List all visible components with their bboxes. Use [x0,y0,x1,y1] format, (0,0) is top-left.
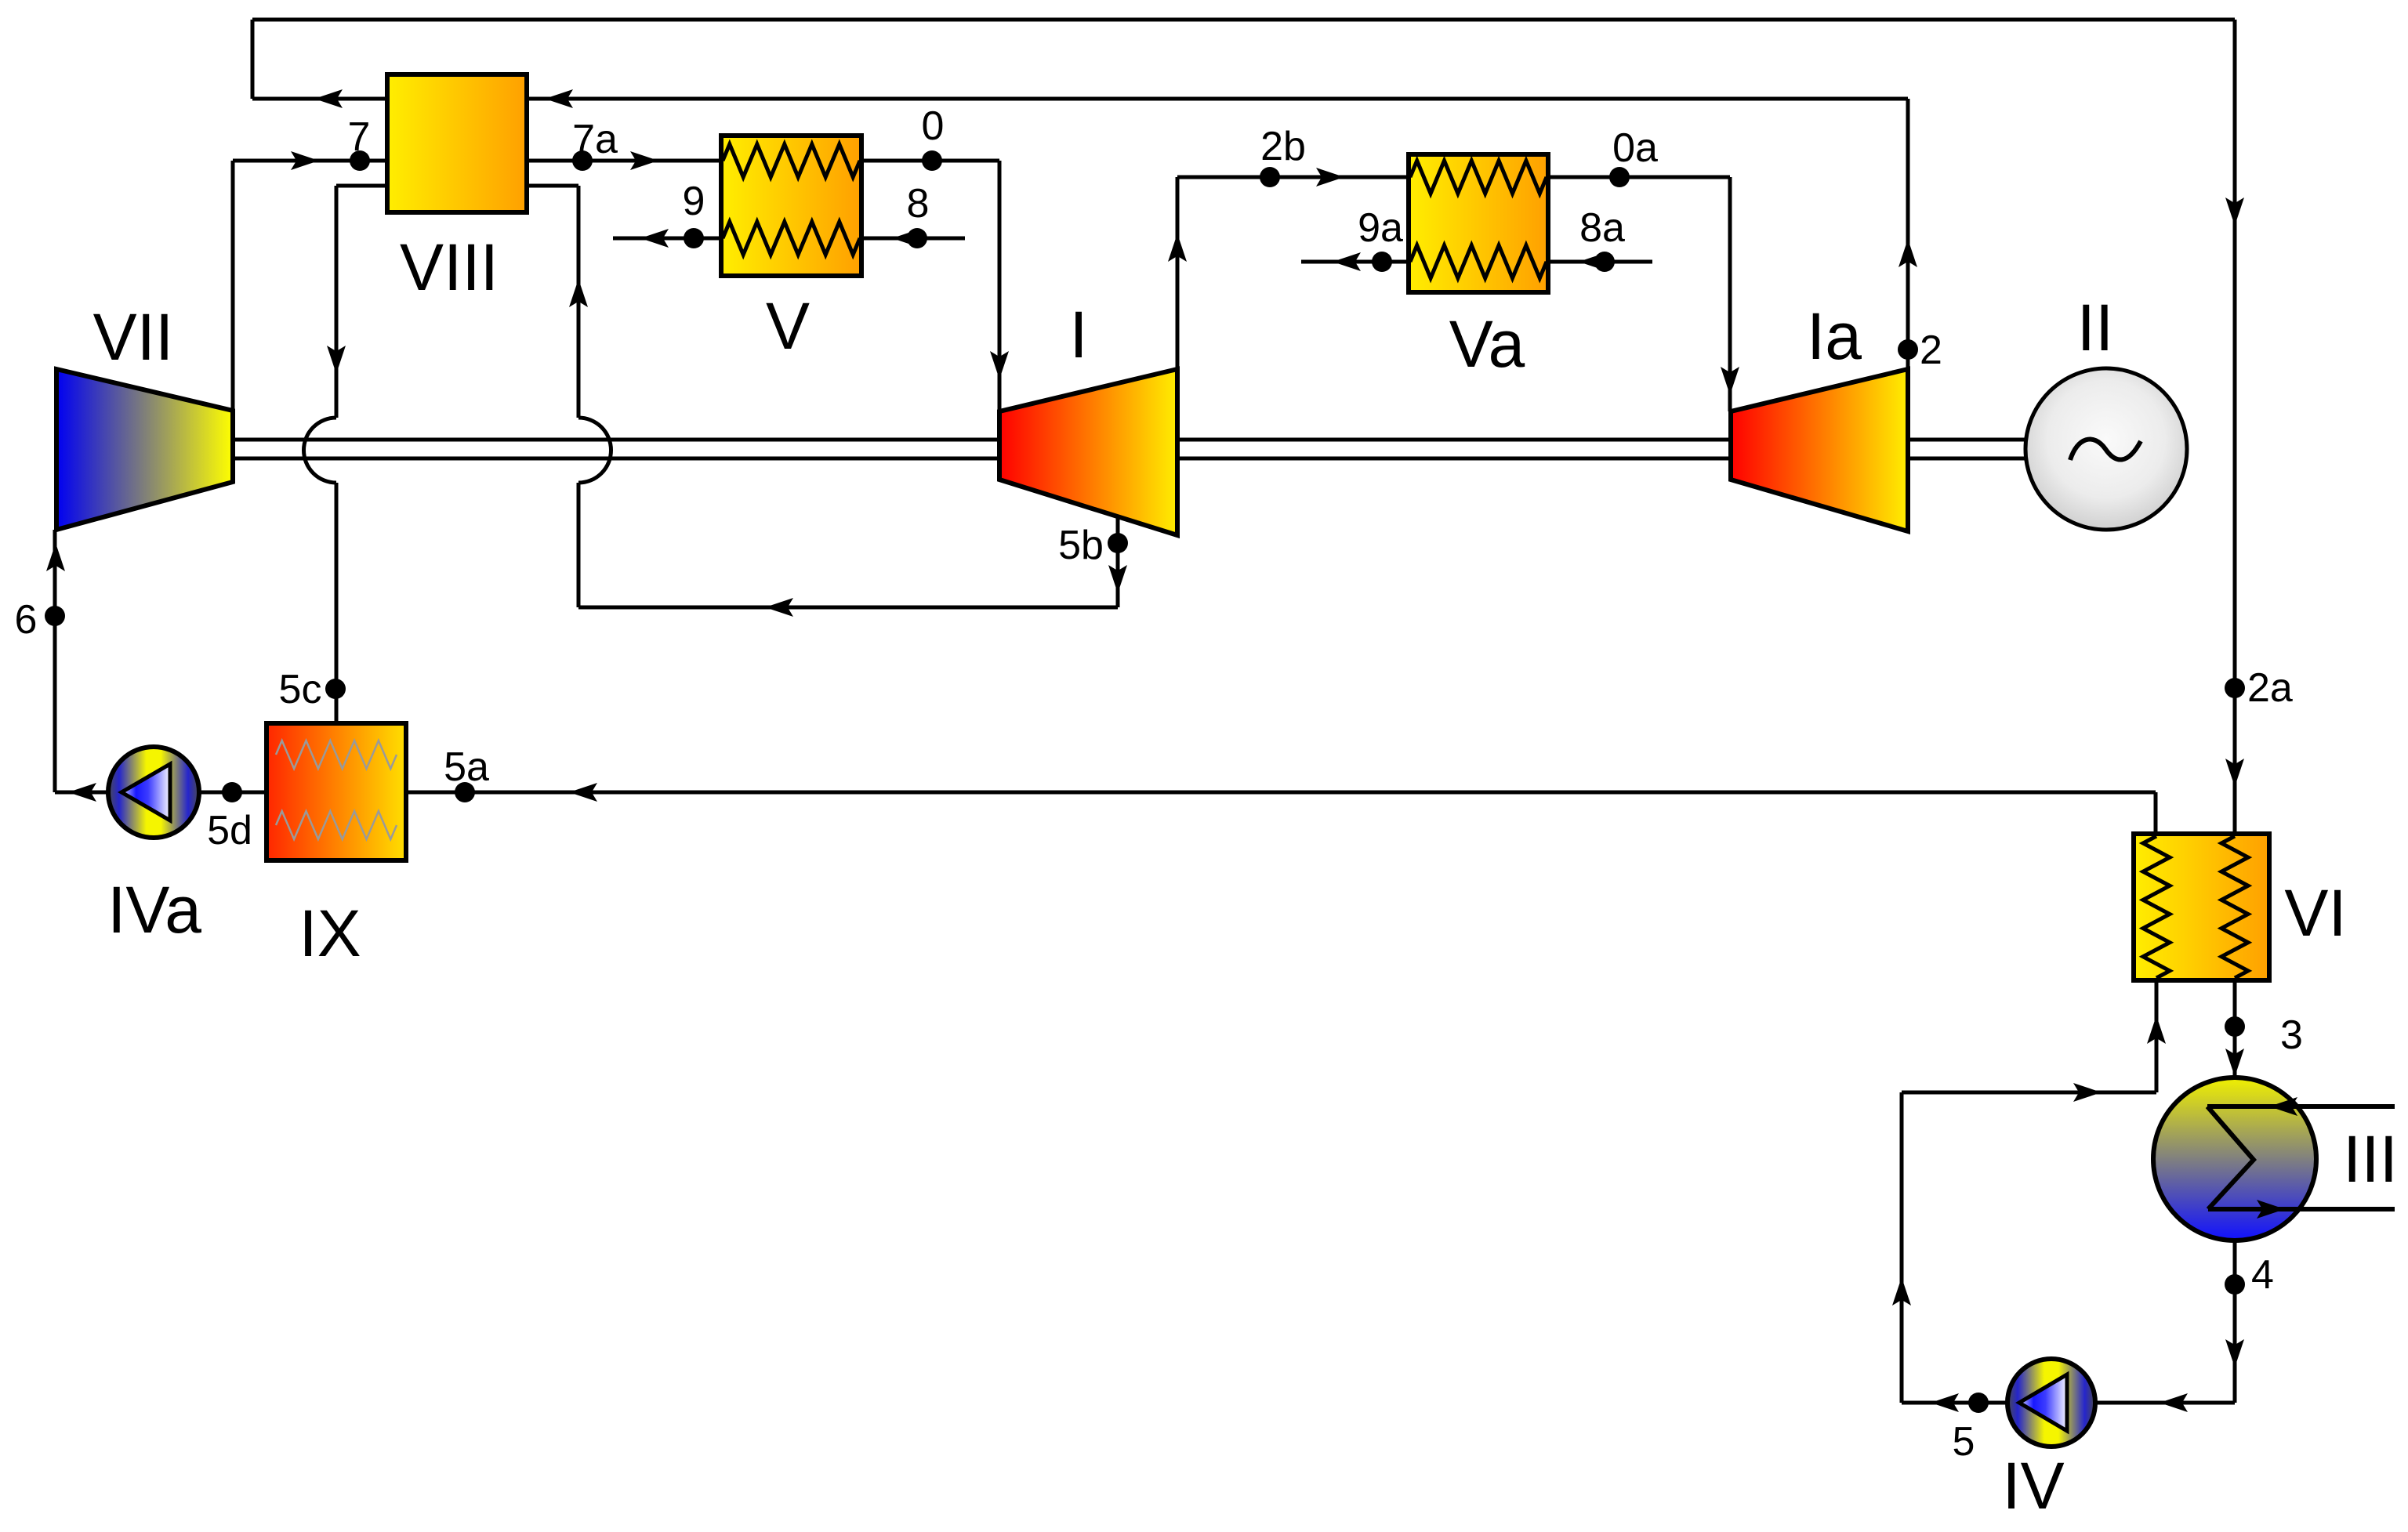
svg-text:Va: Va [1449,307,1525,381]
svg-text:3: 3 [2280,1012,2303,1058]
svg-text:IX: IX [299,896,361,970]
svg-text:III: III [2343,1122,2398,1196]
svg-text:II: II [2077,291,2114,364]
svg-text:IVa: IVa [107,873,201,947]
svg-text:VI: VI [2284,876,2346,950]
svg-text:7a: 7a [572,117,618,162]
svg-text:2b: 2b [1260,124,1306,169]
svg-text:5b: 5b [1058,523,1104,568]
svg-text:6: 6 [15,597,38,643]
svg-text:5a: 5a [444,744,489,790]
svg-text:0: 0 [922,103,945,149]
svg-text:9a: 9a [1358,205,1403,251]
svg-text:VII: VII [93,300,174,374]
svg-text:2: 2 [1920,328,1942,373]
svg-text:5: 5 [1953,1419,1975,1465]
svg-text:Ia: Ia [1807,299,1862,373]
svg-text:5d: 5d [207,808,252,853]
svg-text:2a: 2a [2247,665,2293,711]
svg-text:8a: 8a [1579,205,1625,251]
svg-text:I: I [1069,298,1087,371]
svg-text:5c: 5c [279,667,322,712]
svg-text:7: 7 [348,114,371,160]
svg-text:0a: 0a [1612,125,1658,171]
svg-text:V: V [766,289,810,363]
svg-text:9: 9 [683,179,705,224]
svg-text:4: 4 [2251,1252,2274,1298]
svg-text:8: 8 [907,181,930,226]
svg-text:VIII: VIII [400,230,499,304]
svg-text:IV: IV [2002,1449,2064,1523]
